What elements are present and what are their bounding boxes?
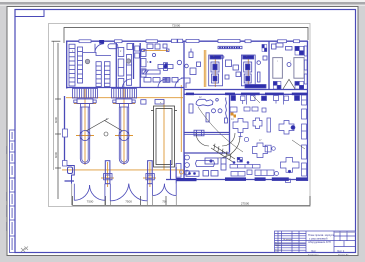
bay2 circle <box>119 131 129 141</box>
corridor double line <box>184 95 284 135</box>
checker bottom-right <box>295 82 304 90</box>
orange axis horizontal lower <box>62 169 184 171</box>
orange flecks <box>231 113 237 118</box>
interior wall B <box>133 43 135 79</box>
column circle room A <box>85 59 89 63</box>
dimension line bottom <box>73 196 311 205</box>
column circle room A2 <box>126 59 130 63</box>
svg-text:7500: 7500 <box>125 200 132 204</box>
WALLS <box>65 41 309 181</box>
ROOM A2 contents <box>118 44 132 89</box>
checker small <box>237 158 242 162</box>
svg-text:Лист 2: Лист 2 <box>337 250 345 253</box>
blue filled box on top wall <box>99 40 104 44</box>
between machines <box>226 60 232 67</box>
dimension bottom texts <box>87 200 250 206</box>
amoeba room contents <box>189 98 228 124</box>
pier 3 <box>148 161 153 184</box>
bottom row boxes <box>176 164 181 178</box>
svg-text:Пров.: Пров. <box>275 245 281 247</box>
row boxes y107 <box>230 107 237 112</box>
orange crane beam top-middle room <box>143 49 168 51</box>
left stamp column <box>10 130 16 253</box>
orange pier3 axis <box>149 162 151 187</box>
vehicle stand 1 <box>273 58 283 79</box>
machine 2 <box>241 55 255 86</box>
gate opening 1 arcs <box>73 184 75 201</box>
checker bottom-left <box>273 82 281 90</box>
bay1 head bracket <box>77 99 93 104</box>
black pit bay3 <box>151 106 177 167</box>
svg-text:№ докум.: № докум. <box>283 238 293 241</box>
left column items <box>189 52 193 58</box>
gate extension lines <box>72 184 176 205</box>
orange circle ticks <box>76 135 94 137</box>
svg-text:Копировал: Копировал <box>308 254 319 256</box>
hatched counter bottom <box>245 85 266 89</box>
left wall window <box>63 129 68 166</box>
svg-text:Формат A1: Формат A1 <box>338 253 349 256</box>
RIGHT WALL lining boxes <box>302 46 308 176</box>
title block <box>275 231 356 253</box>
top row boxes <box>147 44 153 49</box>
crane rail strip <box>218 46 242 48</box>
big door arcs stair hall <box>196 133 240 158</box>
title block small texts <box>275 238 349 256</box>
vehicle stand 2 <box>294 58 304 79</box>
bay2 comb <box>112 89 137 99</box>
checker top-right <box>295 46 304 55</box>
left edge boxes <box>141 49 146 56</box>
leader V hall <box>86 121 123 132</box>
small circle node hall <box>86 119 123 137</box>
top toolbar strip <box>0 0 365 2</box>
door bottom wall <box>286 179 291 183</box>
right of machine2 <box>257 61 261 65</box>
rooms divider x230 <box>229 95 231 152</box>
svg-text:72000: 72000 <box>172 23 181 27</box>
corridor wall y131 <box>184 132 230 134</box>
scattered callout numbers <box>72 51 291 142</box>
stem symbols row <box>231 96 236 101</box>
amoeba bench <box>196 99 213 106</box>
door arc right <box>175 78 185 88</box>
bay1 circle <box>80 131 90 141</box>
machine 1 <box>209 55 223 86</box>
bench bottom room <box>196 161 215 167</box>
small rect w dividers <box>265 145 271 152</box>
orange axis bubble <box>179 170 183 174</box>
left wall upper <box>66 41 68 89</box>
plus machine D <box>253 143 268 158</box>
top wall windows <box>79 39 300 43</box>
ladder rack 4 <box>104 62 110 87</box>
top wall <box>66 40 308 42</box>
tall rect <box>267 118 271 132</box>
pier boxes <box>104 174 155 180</box>
MIDDLE-TOP room contents <box>141 44 185 88</box>
svg-text:27500: 27500 <box>241 202 250 206</box>
column circle <box>287 63 291 67</box>
GATES <box>67 161 177 184</box>
orange pier2 axis <box>107 162 109 187</box>
toilet circles <box>176 155 226 178</box>
svg-text:7500: 7500 <box>87 200 94 204</box>
gate swing arcs <box>74 184 176 201</box>
title block header dark row <box>275 243 307 245</box>
partitions right rooms <box>246 95 248 105</box>
bottom wall left (gates band) <box>65 180 75 182</box>
hatch box near pit3 top <box>141 100 164 105</box>
viewport border (light gray) <box>49 24 311 207</box>
counter with hatch <box>142 70 160 74</box>
right wall <box>307 41 309 181</box>
corner cross marks <box>21 247 28 253</box>
left wall hall <box>64 96 66 161</box>
VEHICLE ROOM contents <box>273 58 304 79</box>
big plus G <box>281 158 300 173</box>
checker block machine room <box>262 45 267 52</box>
RIGHT ROOMS machine rows <box>230 96 300 158</box>
bay2 head bracket <box>116 99 132 104</box>
orange axis vertical pit3 <box>163 100 165 170</box>
column circle <box>177 60 181 64</box>
door arc room A bottom wall <box>123 79 132 88</box>
gate opening 3 arcs <box>152 184 154 196</box>
toilets top wall <box>184 152 230 154</box>
bottom wall of top band left part <box>66 87 184 89</box>
bottom wall of top band right part <box>184 89 308 91</box>
svg-text:Утв.: Утв. <box>275 251 279 253</box>
MACHINE ROOM contents <box>181 46 267 88</box>
top-left frame box <box>15 10 44 17</box>
bottom wall thick segments <box>177 177 308 181</box>
door box corridor <box>194 130 204 136</box>
svg-text:Лист: Лист <box>311 250 317 253</box>
bottom row boxes <box>144 78 151 83</box>
STAIR/corridor area <box>194 130 204 136</box>
bay1 pit <box>80 107 89 164</box>
small circle <box>152 53 155 56</box>
machine dots middle-top <box>149 61 151 63</box>
svg-text:750: 750 <box>162 200 167 204</box>
rounded tub room A <box>108 44 118 49</box>
orange bracket ticks <box>74 103 96 105</box>
hall right wall <box>183 88 185 181</box>
orange axis vertical pit2 <box>123 89 125 166</box>
interior wall C <box>139 43 141 88</box>
cross machine A <box>233 119 248 133</box>
orange machine-room axes <box>203 50 205 87</box>
dimension line top <box>64 28 308 44</box>
gate opening 2 arcs <box>109 184 111 201</box>
left jamb block <box>67 166 75 184</box>
crane beam end squares <box>142 49 145 52</box>
toilets room left wall <box>170 160 172 180</box>
orange axis vertical pit1 <box>84 89 86 166</box>
vehicle room top boxes <box>276 43 283 47</box>
ladder rack 3 <box>96 62 101 87</box>
svg-text:оборудования АТП: оборудования АТП <box>308 240 331 244</box>
BOTTOM RIGHT rooms <box>230 158 299 183</box>
bay1 comb <box>73 89 98 99</box>
plus machine B <box>253 118 262 129</box>
svg-text:с расстановкой: с расстановкой <box>309 237 328 241</box>
interior wall E <box>268 41 270 90</box>
black leader lines <box>198 96 305 152</box>
staircase diagonal <box>211 144 235 162</box>
orange axis horizontal upper <box>66 97 183 99</box>
counter polyline <box>83 52 111 55</box>
door arc bottom middle <box>158 79 167 88</box>
bay2 pit <box>119 107 128 164</box>
svg-text:6000: 6000 <box>54 151 58 158</box>
ring <box>244 137 248 141</box>
boxes row <box>231 172 245 177</box>
V brace vehicle room <box>283 79 295 89</box>
left dim texts <box>54 116 58 158</box>
bottom wall right part <box>166 179 308 181</box>
squiggle pipe <box>225 98 228 119</box>
right gate jamb <box>175 167 177 184</box>
cross machine <box>158 65 173 69</box>
interior wall A2 <box>115 43 117 88</box>
right rooms top wall dark segments <box>186 93 308 96</box>
room B boxes <box>135 46 140 58</box>
svg-text:План произв. корпуса: План произв. корпуса <box>308 233 335 237</box>
orange axes group <box>62 50 248 187</box>
pier 2 <box>105 161 110 184</box>
HALL BAYS <box>73 89 137 164</box>
svg-text:6000: 6000 <box>54 116 58 123</box>
dimension line left <box>52 41 62 199</box>
title block text smudge <box>308 233 345 253</box>
stamp vertical text marks <box>12 132 13 250</box>
ladder rack 2 <box>78 47 83 83</box>
ROOM A storage contents <box>69 44 131 88</box>
left margin tiny vertical text <box>6 146 7 231</box>
big cross C <box>279 121 294 135</box>
interior wall D <box>183 41 185 88</box>
long counter <box>230 165 260 169</box>
door arc room A top <box>95 44 104 53</box>
top wall of right rooms <box>184 93 308 95</box>
ladder rack 1 <box>69 44 75 86</box>
